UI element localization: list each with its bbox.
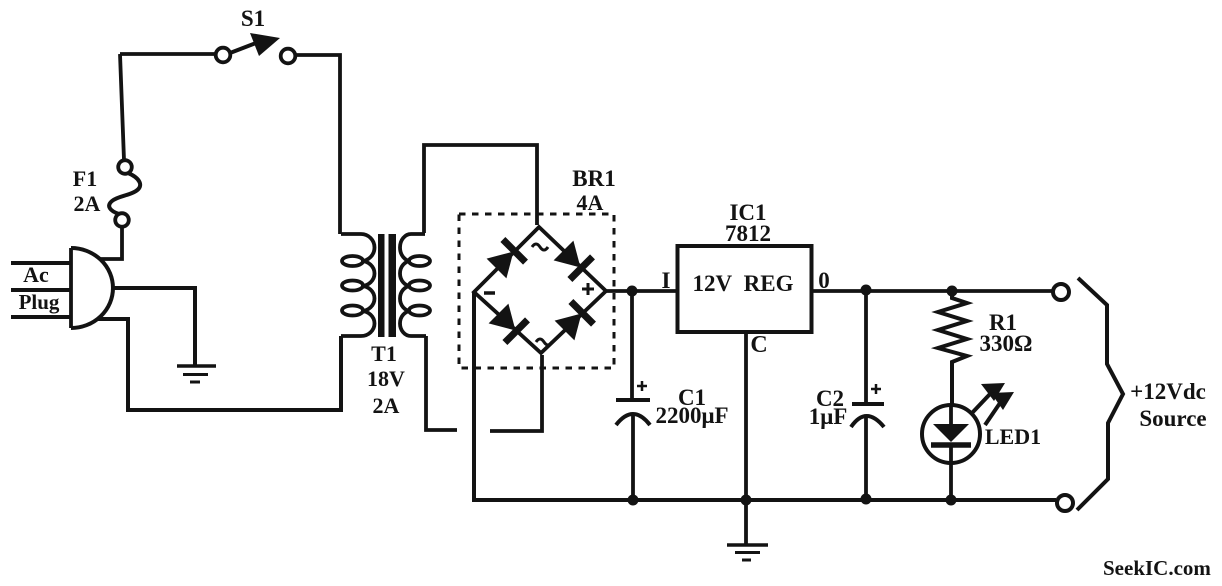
bridge rectifier BR1 dashed box [459, 214, 614, 368]
wire IC output rail [811, 289, 1053, 293]
ground (AC side) [177, 366, 216, 382]
diode D-bottomright [555, 302, 594, 341]
bridge AC symbol top [532, 244, 548, 250]
junction node LED bottom [946, 495, 957, 506]
diode D-topleft [487, 240, 526, 279]
LED1 light arrow 1 [972, 383, 1005, 413]
wire negative rail [474, 292, 1056, 500]
label F1 2A [73, 166, 101, 216]
resistor R1 [938, 291, 967, 405]
output terminal positive [1053, 284, 1069, 300]
transformer T1 secondary coil [400, 234, 430, 336]
junction node IC ground [741, 495, 752, 506]
svg-text:C: C [750, 332, 767, 358]
label +12Vdc Source [1130, 379, 1207, 431]
label C2 1uF [809, 386, 848, 429]
junction node C2 bottom [861, 494, 872, 505]
svg-text:S1: S1 [241, 6, 265, 31]
svg-text:1μF: 1μF [809, 404, 848, 429]
ground (DC side) [727, 500, 768, 560]
transformer T1 core [378, 234, 396, 337]
label C1 2200uF [655, 385, 728, 428]
AC plug [11, 248, 113, 328]
svg-text:LED1: LED1 [985, 424, 1041, 449]
wire secondary bottom to bridge bottom (with crossover gap) [426, 336, 542, 431]
label T1 18V 2A [367, 341, 405, 418]
svg-text:4A: 4A [577, 190, 604, 215]
label S1 [241, 6, 265, 31]
label LED1 [985, 424, 1041, 449]
output brace [1077, 278, 1123, 510]
bridge minus symbol [484, 291, 495, 295]
svg-text:330Ω: 330Ω [980, 331, 1033, 356]
svg-text:18V: 18V [367, 366, 405, 391]
capacitor C2 [851, 291, 884, 500]
watermark SeekIC.com [1103, 556, 1211, 580]
wire plug bottom to transformer primary bottom [97, 319, 341, 410]
fuse F1 [109, 160, 140, 227]
svg-text:+12Vdc: +12Vdc [1130, 379, 1206, 404]
diode D-bottomleft [489, 304, 528, 343]
pin C [750, 332, 767, 358]
bridge diamond [474, 227, 606, 353]
output terminal negative [1057, 495, 1073, 511]
label BR1 4A [572, 166, 615, 215]
capacitor C1 [616, 291, 650, 500]
junction node C2 top [861, 285, 872, 296]
svg-text:Ac: Ac [23, 262, 49, 287]
wire plug middle to ground [112, 288, 195, 366]
svg-text:2A: 2A [74, 191, 101, 216]
svg-text:T1: T1 [371, 341, 397, 366]
pin 0 [818, 268, 830, 293]
svg-text:12V REG: 12V REG [693, 271, 794, 296]
svg-text:BR1: BR1 [572, 166, 615, 191]
svg-text:SeekIC.com: SeekIC.com [1103, 556, 1211, 580]
bridge AC symbol bottom [536, 339, 552, 345]
op-amp IC1 regulator box [678, 246, 812, 332]
label Ac Plug [19, 262, 60, 314]
wire fuse to plug [100, 227, 122, 259]
svg-text:2A: 2A [373, 393, 400, 418]
switch S1 [216, 33, 296, 63]
pin I [662, 268, 671, 293]
wire secondary top to bridge top [424, 145, 537, 233]
svg-text:F1: F1 [73, 166, 97, 191]
junction node R1 top [947, 286, 958, 297]
LED1 light arrow 2 [985, 392, 1014, 425]
transformer T1 primary coil [341, 234, 375, 336]
wire top AC line to switch [120, 54, 215, 160]
LED1 [922, 405, 980, 500]
wire bridge plus to IC input [606, 289, 677, 293]
svg-text:2200μF: 2200μF [655, 403, 728, 428]
label IC1 7812 [725, 200, 771, 246]
junction node C1 top [627, 286, 638, 297]
bridge plus symbol [582, 283, 594, 295]
diode D-topright [554, 241, 593, 280]
svg-text:Plug: Plug [19, 290, 60, 314]
label R1 330ohm [980, 310, 1033, 356]
svg-text:I: I [662, 268, 671, 293]
label 12V REG [693, 271, 794, 296]
svg-text:Source: Source [1139, 406, 1206, 431]
svg-text:7812: 7812 [725, 221, 771, 246]
wire IC common to negative rail [744, 332, 748, 500]
junction node C1 bottom [628, 495, 639, 506]
wire switch to transformer primary top [296, 55, 340, 234]
